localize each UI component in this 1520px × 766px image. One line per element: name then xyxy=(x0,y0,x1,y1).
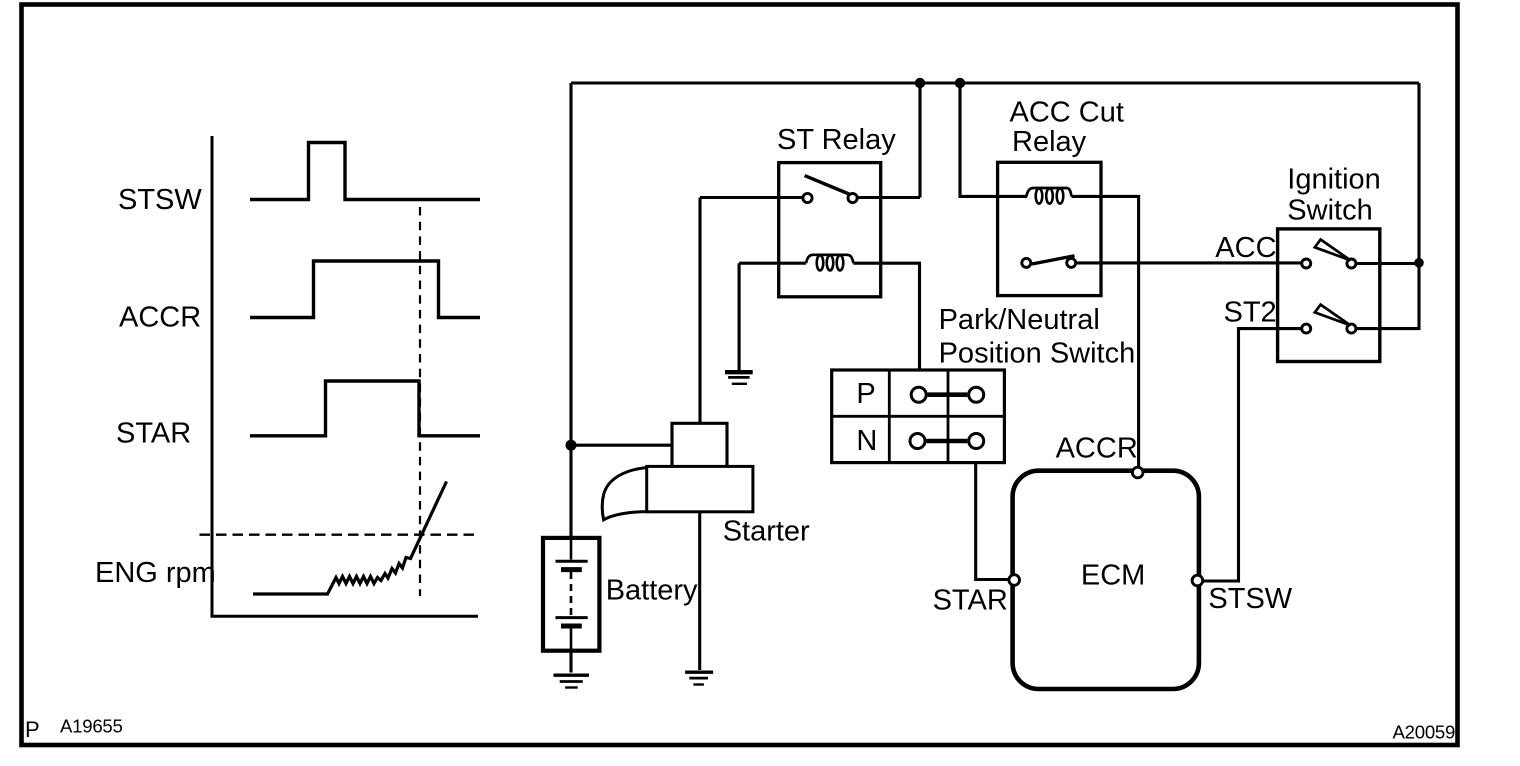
svg-text:STSW: STSW xyxy=(1208,583,1292,615)
svg-text:ACC: ACC xyxy=(1215,232,1276,264)
svg-text:Ignition: Ignition xyxy=(1287,164,1381,196)
svg-text:Battery: Battery xyxy=(606,575,698,607)
svg-text:Starter: Starter xyxy=(723,516,810,548)
svg-text:A20059: A20059 xyxy=(1393,722,1456,743)
svg-text:A19655: A19655 xyxy=(60,716,123,737)
svg-text:ACCR: ACCR xyxy=(119,302,201,334)
svg-text:ACC Cut: ACC Cut xyxy=(1010,97,1124,129)
svg-text:STAR: STAR xyxy=(933,585,1008,617)
svg-text:P: P xyxy=(856,378,875,410)
svg-text:P: P xyxy=(25,717,39,742)
svg-text:STSW: STSW xyxy=(118,184,202,216)
svg-text:Relay: Relay xyxy=(1012,126,1087,158)
svg-text:ST2: ST2 xyxy=(1224,297,1277,329)
svg-text:ECM: ECM xyxy=(1081,560,1145,592)
svg-text:ENG rpm: ENG rpm xyxy=(95,557,216,589)
svg-text:Park/Neutral: Park/Neutral xyxy=(939,304,1100,336)
svg-text:Position Switch: Position Switch xyxy=(939,338,1136,370)
svg-text:ACCR: ACCR xyxy=(1056,433,1138,465)
svg-text:STAR: STAR xyxy=(116,418,191,450)
svg-text:Switch: Switch xyxy=(1287,195,1372,227)
svg-text:N: N xyxy=(856,425,877,457)
svg-text:ST Relay: ST Relay xyxy=(777,124,896,156)
